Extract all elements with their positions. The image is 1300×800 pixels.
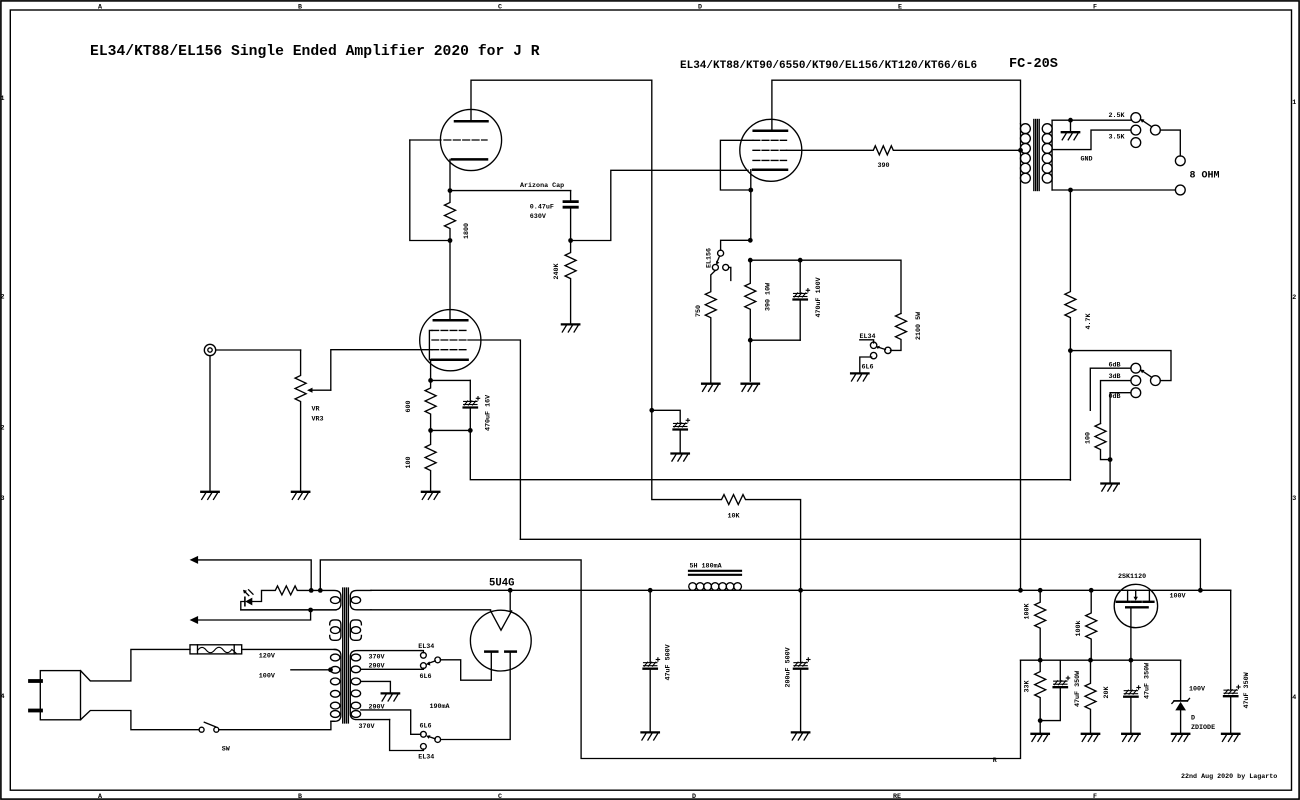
resistor 20K [1085,660,1096,733]
wire node to NFB switch pole [1070,351,1171,381]
wire wiper to driver grid [331,350,432,391]
T1 5V winding right [350,590,371,609]
svg-text:F: F [1093,793,1097,800]
svg-text:RE: RE [893,793,901,800]
node cap / 240K [568,238,573,243]
V1a cathode [432,358,468,361]
svg-text:190mA: 190mA [430,703,451,711]
svg-text:470uF 100V: 470uF 100V [815,277,823,317]
V2 plate [754,130,787,133]
svg-text:GND: GND [1081,155,1093,163]
svg-text:390: 390 [878,162,890,170]
power transformer T1 core [342,588,344,723]
fuse F1 [190,645,242,654]
ground (VR) [292,492,309,500]
svg-text:FC-20S: FC-20S [1009,57,1058,72]
svg-text:2SK1120: 2SK1120 [1118,573,1146,581]
resistor 33K [1035,660,1046,720]
svg-text:3: 3 [1292,495,1296,503]
svg-text:47uF 350W: 47uF 350W [1144,662,1152,699]
node UL tap on OPT primary [1018,148,1023,153]
ground (390 10W) [742,384,759,392]
svg-text:100V: 100V [1170,592,1186,600]
resistor 1800 [445,191,456,241]
primary 100V tap wire [291,669,331,671]
svg-text:2: 2 [1,294,5,302]
ground (decoupling cap) [672,454,689,462]
svg-text:D: D [692,793,696,800]
T1 heater winding right (unused) [350,620,361,640]
NFB switch contacts [1131,363,1141,373]
zener branch wire [1180,660,1182,700]
LED light arrows [244,591,248,595]
svg-text:100K: 100K [1024,602,1032,619]
impedance switch contacts [1131,113,1141,123]
gate node line [1021,659,1181,661]
pentode V1a (driver, lower) [420,310,481,371]
wire 390 bottom to ground [749,340,751,381]
V1b plate [455,120,488,123]
resistor 750 [705,270,716,383]
MOSFET gate lead [1130,607,1132,660]
zener diode D ZDIODE [1174,700,1187,702]
OPT core [1033,120,1035,191]
switch SW (mains) [199,727,204,732]
0dB contact wire to 100 bottom [1110,393,1131,460]
svg-text:EL34/KT88/EL156 Single Ended A: EL34/KT88/EL156 Single Ended Amplifier 2… [90,44,540,60]
V1a g1 (dashed) [432,349,468,351]
capacitor 47uF 500V [649,590,651,662]
node B+ left [309,588,314,593]
resistor 390 10W [745,260,756,340]
svg-text:D: D [698,4,702,12]
V1b grid lead [410,139,441,141]
node NFB takeoff [1068,188,1073,193]
wire NFB node down to line [1069,351,1071,481]
resistor 100 (NFB divider) [1095,424,1110,460]
capacitor 47uF 350W (mid) [1130,660,1132,690]
V2 cathode lead [750,170,752,241]
arrow to other channel (B+) [197,560,311,591]
terminal 8ohm hot [1175,156,1185,166]
V2 g1 (dashed) [753,159,787,161]
3dB contact wire to 100 top [1101,381,1131,424]
B+ rail (5V winding to regulator) [371,589,1231,591]
V1b cathode lead [449,159,451,190]
input jack J1 [204,344,215,355]
svg-text:1800: 1800 [463,223,471,239]
wire cathode to bypass cap [431,379,471,381]
resistor 100K [1035,590,1046,660]
6dB contact stub [1090,368,1131,410]
svg-text:100V: 100V [1189,685,1205,693]
capacitor 47uF 350W (output) [1224,685,1240,696]
wiper arrow of VR [311,389,331,391]
wire 290V lower to 6L6 contact [361,710,421,734]
ground (33K) [1032,734,1049,742]
node 47uF 500V on rail [648,588,653,593]
V1a g3 (dashed) [432,329,468,331]
capacitor 200uF 500V [800,590,802,662]
svg-text:6L6: 6L6 [420,723,432,731]
ground (200uF 500V) [792,732,809,740]
5U4G filament return wire [371,609,491,611]
rectifier 5U4G [470,610,531,671]
wire 370V to EL34 contact [421,651,423,653]
V2 cathode [753,168,787,171]
V1b grid (dashed) [444,139,487,141]
svg-text:290V: 290V [369,663,385,671]
svg-text:47uF 500V: 47uF 500V [664,644,672,680]
V1a cathode lead [430,360,432,381]
node LED return [308,608,313,613]
ground (100 cathode) [422,492,439,500]
ground (47uF output) [1222,734,1239,742]
svg-text:B: B [298,4,302,12]
node 33K bottom [1038,718,1043,723]
NFB line to attenuator [470,430,1070,479]
NFB switch pole [1151,376,1161,386]
svg-text:EL34: EL34 [418,643,434,651]
T1 5V winding left [241,590,341,609]
MOSFET 2SK1120 [1114,584,1157,627]
V1a plate lead from 1800 [449,241,451,321]
svg-text:EL34: EL34 [418,754,434,762]
resistor 390 (UL screen) [787,146,1021,155]
ground (zener) [1172,734,1189,742]
svg-text:8 OHM: 8 OHM [1190,171,1220,182]
wire SW to transformer primary bottom [219,721,334,729]
wire jack ground lead [209,356,211,492]
svg-text:120V: 120V [259,652,275,660]
V2 plate lead to OPT [772,80,1021,131]
svg-text:390 10W: 390 10W [765,282,773,311]
svg-text:100k: 100k [1075,620,1083,636]
output transformer FC-20S primary [1020,124,1022,591]
cathode rail wire [750,260,901,313]
wire 290V to 6L6 contact [361,668,424,669]
switch 370/290 lower (6L6/EL34) [435,737,441,743]
resistor 100 (cathode) [425,430,436,491]
resistor 2100 5W [891,313,907,350]
node cathode rail left [748,258,753,263]
V2 g2 (dashed) [753,149,787,151]
switch 370/290 upper (EL34/6L6) [435,657,441,663]
svg-text:C: C [498,4,502,12]
resistor 100k [1086,590,1097,660]
svg-text:5U4G: 5U4G [489,578,514,590]
T1 HV winding right [350,651,421,720]
ground (NFB 100) [1109,460,1111,483]
arrow to other channel (LED return) [197,610,311,620]
svg-text:3dB: 3dB [1109,373,1121,381]
wire cap bottom bracket [750,339,800,341]
resistor 240K [565,241,576,324]
svg-text:290V: 290V [369,703,385,711]
svg-text:470uF 16V: 470uF 16V [485,395,493,431]
node OPT primary bottom on rail [1018,588,1023,593]
ground (6L6 pos) [851,373,868,381]
svg-text:D: D [1191,714,1195,722]
switch EL156 select [721,240,751,250]
node V1b cathode / 1800 top [448,188,453,193]
svg-text:370V: 370V [369,654,385,662]
node 100V output [1198,588,1203,593]
HV center tap ground [361,681,391,693]
svg-text:C: C [498,793,502,800]
wire 600 bottom to cap bottom [431,429,471,431]
svg-text:22nd Aug 2020 by Lagarto: 22nd Aug 2020 by Lagarto [1181,773,1277,781]
svg-text:6L6: 6L6 [420,673,432,681]
5U4G right plate wire to lower switch [441,653,511,740]
V1b plate lead to B+ line [471,80,652,121]
svg-text:5H 180mA: 5H 180mA [690,563,723,571]
wire 100V to last cap [1200,590,1230,689]
svg-text:E: E [898,4,902,12]
impedance switch pole [1151,125,1161,135]
decoupling cap (B+ driver) [652,410,680,423]
svg-text:2: 2 [1292,294,1296,302]
wire V1b grid return [410,140,450,241]
node 390 bottom [748,338,753,343]
svg-text:1: 1 [1,95,5,103]
T1 primary winding [331,649,341,721]
svg-text:100: 100 [1084,432,1092,444]
upper triode supply drop: wire from B+ line [651,80,653,410]
secondary 3.5K tap wire [1052,130,1131,150]
OPT secondary [1051,120,1053,190]
node decoupling cap [649,408,654,413]
ground (240K) [562,324,579,332]
svg-text:6L6: 6L6 [862,364,874,372]
resistor 10K (B+ dropper) [652,410,801,590]
ground (20K) [1082,734,1099,742]
capacitor 47uF 350W (gate, parallel 33K) [1059,660,1061,680]
terminal 8ohm return [1175,185,1185,195]
svg-text:Arizona Cap: Arizona Cap [520,182,564,190]
ground (47uF mid) [1122,734,1139,742]
svg-text:B: B [298,793,302,800]
node 4.7K bottom [1068,348,1073,353]
node g3 strap / cathode [748,188,753,193]
node cathode / 600 top [428,378,433,383]
wire jack to VR top [216,349,301,351]
node cathode / EL156 switch branch [748,238,753,243]
svg-text:EL34: EL34 [860,333,876,341]
ground (secondary) [1070,120,1072,132]
svg-text:ZDIODE: ZDIODE [1191,724,1215,732]
potentiometer VR VR3 [295,350,306,491]
node 100K divider top [1038,588,1043,593]
svg-text:20K: 20K [1103,685,1111,698]
svg-text:750: 750 [695,305,703,317]
svg-text:200uF 500V: 200uF 500V [784,647,792,687]
T1 heater winding left (unused) [330,620,341,640]
LED D1 [245,598,252,606]
switch EL34/6L6 (cathode) [885,347,891,353]
node V1b cathode to coupling [450,190,571,192]
svg-text:3: 3 [1,495,5,503]
choke 5H 180mA [689,570,741,572]
node cap bottom / NFB line [468,428,473,433]
svg-text:10K: 10K [728,512,741,520]
svg-text:EL34/KT88/KT90/6550/KT90/EL156: EL34/KT88/KT90/6550/KT90/EL156/KT120/KT6… [680,60,977,72]
svg-text:630V: 630V [530,213,546,221]
svg-text:47uF 350W: 47uF 350W [1074,670,1082,707]
capacitor 470uF 100V [799,260,801,293]
node 5U4G filament B+ [508,588,513,593]
node 200uF / 10K on rail [798,588,803,593]
wire B+ riser to R-line [320,560,1020,759]
ground (input jack) [201,492,218,500]
g2 100V feed line [520,539,1200,590]
resistor 4.7K (NFB) [1065,190,1076,351]
V1a g2 (dashed) [432,339,468,341]
svg-text:240K: 240K [553,262,561,279]
node 100k (2nd) top [1089,588,1094,593]
5U4G plates [485,650,497,653]
svg-text:1: 1 [1292,99,1296,107]
node 600 bottom [428,428,433,433]
svg-text:3.5K: 3.5K [1109,133,1126,141]
V2 g3 (dashed) [753,139,787,141]
svg-text:VR: VR [312,406,320,414]
secondary top wire to 2.5K tap [1052,119,1131,121]
svg-text:2100 5W: 2100 5W [915,311,923,340]
V2 g3-cathode strap [720,140,753,190]
svg-text:100: 100 [405,456,413,468]
V1a plate [434,319,468,322]
wire 370V lower to EL34 contact [390,720,424,751]
V1b cathode [452,158,487,161]
svg-text:EL156: EL156 [706,248,714,268]
svg-text:VR3: VR3 [312,416,324,424]
svg-text:0.47uF: 0.47uF [530,204,554,212]
ground (750) [702,384,719,392]
svg-text:2.5K: 2.5K [1109,112,1126,120]
ground (47uF 500V) [642,732,659,740]
pole to 8 ohm hot terminal [1160,130,1180,156]
svg-text:4: 4 [1,693,5,701]
triode V1b (upper SRPP) [440,109,501,170]
node secondary ground tap [1068,118,1073,123]
V1a g3-cathode strap [429,330,432,359]
svg-text:600: 600 [405,400,413,412]
LED resistor (in B+ line) [252,586,310,602]
svg-text:4.7K: 4.7K [1085,312,1093,329]
capacitor 0.47uF 630V (film) [570,191,572,201]
node bypass cap top [798,258,803,263]
svg-text:33K: 33K [1024,679,1032,692]
capacitor 470uF 16V [469,380,471,401]
svg-text:R: R [993,757,997,765]
svg-text:SW: SW [222,746,231,754]
resistor 600 [425,380,436,430]
pentode V2 (output tube) [740,119,802,181]
5U4G left plate wire to upper switch [440,653,491,680]
svg-text:47uF 350W: 47uF 350W [1243,671,1251,708]
mains plug [40,671,80,720]
svg-text:4: 4 [1292,694,1296,702]
node 1800 bottom / grid return [448,238,453,243]
V1a g2 lead to 100V line [468,340,520,539]
node 100 bottom [1108,457,1113,462]
svg-text:370V: 370V [359,723,375,731]
svg-text:100V: 100V [259,673,275,681]
svg-text:F: F [1093,4,1097,12]
node 100V tap [328,667,333,672]
svg-text:2: 2 [1,425,5,433]
secondary bottom wire [1052,189,1175,191]
wire coupling to power grid [571,170,748,240]
